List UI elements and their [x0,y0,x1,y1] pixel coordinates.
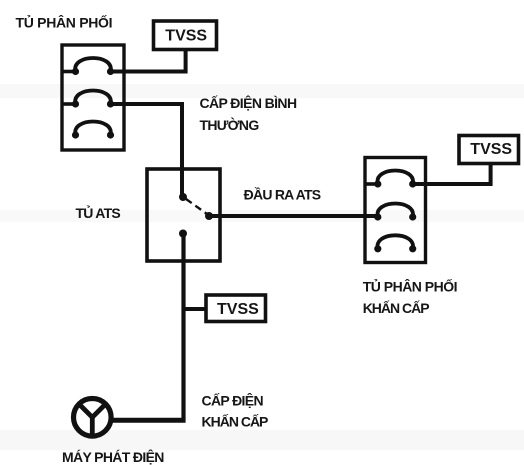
breaker CB3 (emergency panel) [374,235,416,252]
svg-text:TỦ PHÂN PHỐI: TỦ PHÂN PHỐI [363,278,457,295]
svg-text:KHẤN CẤP: KHẤN CẤP [363,300,430,316]
TVSS box 2 (right) [459,136,519,164]
wire: breaker 1 output to TVSS tap [111,51,186,72]
distribution panel box (normal) [62,45,124,150]
wire: ATS output to emergency panel [209,214,378,218]
ATS top contact (normal source) [179,193,187,201]
svg-text:THƯỜNG: THƯỜNG [200,116,260,133]
wire: ATS emergency feed down to generator [181,234,185,423]
TVSS box 1 (top) [154,21,217,50]
label TỦ PHÂN PHỐI KHẤN CẤP (emergency panel) [363,278,457,317]
label CẤP ĐIỆN KHẤN CẤP [202,392,269,430]
wire: tap to TVSS 3 [184,307,206,311]
label CẤP ĐIỆN BÌNH THƯỜNG [200,94,297,133]
breaker CB2 (emergency panel) [374,204,416,221]
wire: emergency breaker 1 left stub [365,182,378,186]
TVSS box 3 (middle) [206,295,266,322]
svg-text:KHẤN CẤP: KHẤN CẤP [202,414,269,430]
ATS cabinet box [147,169,220,261]
svg-text:MÁY PHÁT ĐIỆN: MÁY PHÁT ĐIỆN [62,448,164,465]
wire: main feed breaker 2 to ATS input [111,104,183,197]
svg-text:TỦ ATS: TỦ ATS [76,204,121,221]
ATS bottom contact (emergency source) [179,230,187,238]
svg-text:CẤP ĐIỆN BÌNH: CẤP ĐIỆN BÌNH [200,94,297,111]
svg-text:TỦ PHÂN PHỐI: TỦ PHÂN PHỐI [16,14,113,31]
svg-text:CẤP ĐIỆN: CẤP ĐIỆN [202,392,264,409]
breaker CB1 (normal panel) [72,58,114,75]
ATS switch arm (dashed) [186,199,207,214]
ATS output contact [205,212,213,220]
svg-text:TVSS: TVSS [165,28,207,45]
emergency distribution panel box [365,158,426,263]
wire: emergency breaker 1 output to TVSS 2 [413,165,491,184]
wire: breaker 2 left stub [62,102,76,106]
svg-text:TVSS: TVSS [217,301,259,318]
breaker CB3 (normal panel) [72,122,114,139]
breaker CB1 (emergency panel) [374,171,416,188]
svg-text:ĐẦU RA ATS: ĐẦU RA ATS [244,187,321,203]
breaker CB2 (normal panel) [72,91,114,108]
wire: breaker 1 left stub [62,70,76,74]
svg-text:TVSS: TVSS [470,141,512,158]
generator (MÁY PHÁT ĐIỆN) [74,399,112,437]
